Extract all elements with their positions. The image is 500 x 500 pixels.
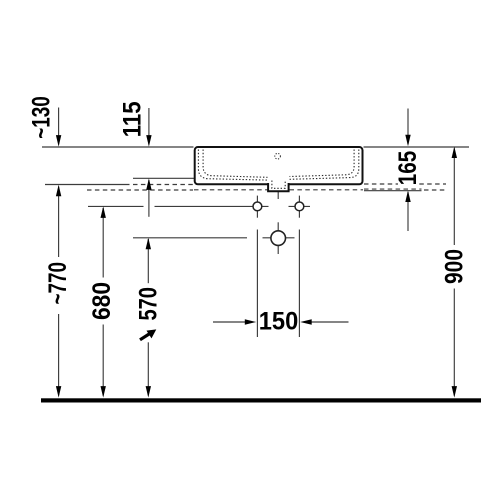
- svg-text:~770: ~770: [44, 262, 72, 305]
- basin interior dotted left wall outer surface: [198, 150, 267, 181]
- wire lower dashed line far right: [424, 189, 446, 191]
- dimension 900 line: [453, 149, 455, 396]
- wire rim level left extension line: [42, 146, 194, 148]
- basin interior dotted right wall outer surface: [290, 150, 359, 180]
- dimension ~770 arrow up: [56, 185, 61, 197]
- drain trap outer cup: [268, 183, 289, 191]
- dimension 150 arrow right: [245, 319, 256, 324]
- wire lower dashed line far left: [87, 189, 193, 191]
- wire hole R cross vertical: [298, 196, 300, 218]
- wire console line dashed left: [133, 184, 193, 186]
- svg-text:900: 900: [441, 249, 469, 284]
- dimension 680 line: [102, 208, 104, 396]
- dimension 680 arrow down: [101, 386, 106, 398]
- dimension 115 line top: [148, 108, 150, 217]
- dimension 115 arrow down: [146, 135, 151, 147]
- wire hole extension line 680 segment a: [88, 205, 144, 207]
- wire console line dashed right: [364, 183, 446, 185]
- wire lower dashed line under basin right of trap: [290, 189, 364, 191]
- wire drain cross vertical: [277, 222, 279, 254]
- dimension 570 arrow up: [146, 238, 151, 250]
- wire hole R cross horizontal: [289, 205, 311, 207]
- dimension 570 arrow down: [146, 386, 151, 398]
- basin interior dotted right wall inner surface: [290, 150, 355, 177]
- dimension ~130 line: [58, 108, 60, 145]
- wire 150 extension line left: [256, 230, 258, 338]
- wire drain cross horizontal: [263, 237, 295, 239]
- dimension ~770 arrow down: [56, 386, 61, 398]
- svg-text:150: 150: [259, 308, 299, 336]
- dimension 570 line: [147, 239, 149, 396]
- dimension ~130 arrow down: [56, 135, 61, 147]
- svg-text:165: 165: [394, 151, 422, 186]
- wire rim level right extension line: [364, 146, 470, 148]
- drain hole circle: [271, 231, 286, 246]
- svg-text:~130: ~130: [28, 96, 56, 139]
- wire countertop top line left: [133, 177, 195, 179]
- wire lower solid line right of basin: [364, 190, 422, 192]
- wire 150 extension line right: [298, 230, 300, 338]
- wire hole extension line 680 segment b: [155, 205, 269, 207]
- wire drain extension line 570: [133, 237, 247, 239]
- wire trap centerline: [277, 174, 279, 199]
- wire lower dashed line under basin left of trap: [194, 189, 268, 191]
- dimension 680 arrow up: [101, 206, 106, 218]
- tap hole dotted circle: [275, 153, 281, 159]
- svg-text:680: 680: [88, 282, 116, 320]
- fixing hole right: [295, 202, 304, 211]
- basin interior dotted left wall inner surface: [203, 150, 267, 178]
- dimension ~770 line: [58, 187, 60, 396]
- drain trap inner dotted cup: [272, 181, 285, 189]
- dimension 150 arrow left: [300, 319, 312, 324]
- dimension 150 line left: [213, 321, 349, 323]
- floor line: [41, 398, 481, 402]
- wire hole L cross vertical: [256, 196, 258, 218]
- wire lower dashed overlay right of basin: [364, 188, 422, 190]
- basin outer body: [195, 147, 363, 184]
- adjustability arrow northeast: [140, 329, 156, 339]
- wire console line solid left: [45, 184, 130, 186]
- dimension 165 arrow down: [405, 135, 410, 147]
- dimension 900 arrow up: [452, 147, 457, 159]
- dimension 900 arrow down: [452, 386, 457, 398]
- fixing hole left: [253, 202, 262, 211]
- dimension 165 line top: [407, 109, 409, 232]
- svg-text:115: 115: [119, 101, 147, 137]
- dimension 115 arrow up: [146, 178, 151, 190]
- dimension 165 label mask: [398, 180, 417, 188]
- svg-text:570: 570: [135, 287, 163, 321]
- dimension 165 arrow up: [405, 191, 410, 203]
